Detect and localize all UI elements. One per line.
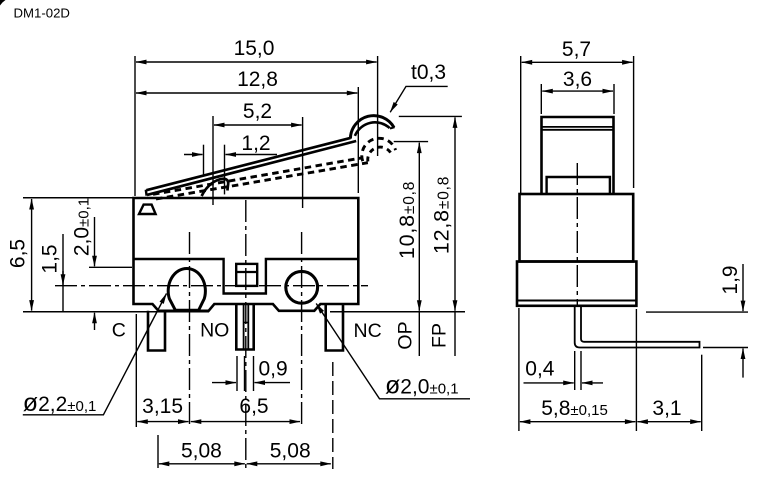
svg-text:1,5: 1,5 [39, 244, 62, 273]
terminal NO [236, 304, 253, 350]
dim 1,5: line [62, 234, 64, 311]
dim 3,1 extension right [701, 355, 703, 431]
svg-text:3,1: 3,1 [652, 397, 681, 420]
dim 5,2 line [214, 124, 302, 126]
svg-text:5,08: 5,08 [181, 440, 222, 463]
dim 5,08 right line [247, 463, 331, 465]
centerline horizontal through holes [55, 285, 368, 287]
lever pressed position bottom dashed [156, 163, 368, 199]
dim 0,9 arrow right [255, 382, 291, 384]
dim 2,0 extension line [89, 266, 132, 268]
pressed hook dashed inner [368, 147, 391, 161]
dim 5,8 extension left [518, 308, 520, 431]
svg-text:OP: OP [395, 321, 417, 349]
svg-text:FP: FP [429, 323, 451, 348]
dim 0,9 extension right [253, 356, 255, 391]
leader diameter 2,0 line [316, 304, 470, 399]
right hole (NC contact) [286, 271, 318, 303]
dim 3,6 line [542, 90, 613, 92]
dim 5,7 extension right [633, 56, 635, 188]
dim 0,4 extension left [574, 351, 576, 390]
end view lever lines on button [542, 127, 614, 130]
dim 5,7 extension left [520, 56, 522, 193]
centerline NC terminal lower [332, 362, 334, 469]
centerline right hole vertical [301, 232, 303, 428]
body top extension line left [23, 197, 133, 199]
dim 3,6 extension right [613, 84, 615, 114]
terminal NO inner tick [244, 322, 249, 324]
leader diameter 2,2 line [23, 294, 167, 415]
svg-text:12,8: 12,8 [237, 68, 278, 91]
svg-text:3,15: 3,15 [142, 395, 183, 418]
dim 3,1 line [637, 421, 700, 423]
dim 0,9 arrow left [212, 382, 236, 384]
dim 10,8 top reference line [394, 141, 428, 143]
seating plane line right [330, 311, 465, 313]
dim 5,8 line [520, 421, 636, 423]
dim 12,8v line tail [454, 312, 456, 356]
svg-text:6,5: 6,5 [7, 239, 30, 268]
dim 1,2 arrow left [184, 154, 203, 156]
dim 0,4 arrow right [582, 382, 603, 384]
dim 6,5 bottom line [191, 421, 300, 423]
end view centerline [576, 163, 578, 307]
svg-text:3,6: 3,6 [563, 68, 592, 91]
dim 15,0 line [136, 61, 377, 63]
dim 12,8 line [136, 92, 357, 94]
dim 0,9 extension left [236, 356, 238, 391]
dim 5,08 left line [159, 463, 245, 465]
svg-text:0,9: 0,9 [259, 358, 288, 381]
page corner logo arc [0, 0, 6, 6]
centerline NO vertical [245, 200, 247, 468]
end view L terminal [575, 306, 700, 348]
dim 12,8v line [454, 117, 456, 310]
dim 3,6 extension left [540, 84, 542, 114]
dim 0,4 arrow left [524, 382, 574, 384]
dim 10,8 line [418, 143, 420, 311]
dim 1,9 lower reference line [703, 347, 748, 349]
dim 3,15 extension left [135, 314, 137, 427]
svg-text:DM1-02D: DM1-02D [14, 6, 70, 21]
dim 1,2 arrow right [226, 154, 278, 156]
end view lower body inner line [517, 300, 636, 302]
svg-text:6,5: 6,5 [239, 395, 268, 418]
dim 5,7 line [522, 61, 633, 63]
dim 5,2 extension left [212, 116, 214, 205]
seating plane line left [23, 311, 209, 313]
svg-text:1,9: 1,9 [719, 265, 742, 294]
centerline left hole vertical [189, 232, 191, 427]
dim 1,9 arrow lower [742, 349, 744, 378]
dim 3,15 line [137, 421, 188, 423]
end view button block [542, 117, 614, 194]
dim 5,8 extension right [635, 309, 637, 431]
left hole (C pivot) [168, 268, 205, 310]
end view upper body [520, 194, 634, 262]
lever hook end cap [390, 127, 395, 128]
dim 10,8 line tail [418, 312, 420, 356]
dim 15,0 extension left [134, 56, 136, 196]
end view button recess [547, 177, 610, 194]
dim 0,4 extension right [580, 351, 582, 390]
terminal NC [326, 304, 343, 351]
dim 0,9 extension mid [244, 356, 246, 391]
leader t0,3 line [390, 86, 448, 112]
svg-text:5,7: 5,7 [562, 38, 591, 61]
dim 12,8v top reference line [399, 115, 462, 117]
lever arm top line [146, 138, 350, 190]
dim 12,8 extension right [357, 87, 359, 193]
dim 1,2 extension left [203, 145, 205, 176]
dim 2,0 arrow lower [94, 313, 96, 330]
terminal NO inner slot [244, 305, 249, 349]
svg-text:5,2: 5,2 [243, 100, 272, 123]
svg-text:15,0: 15,0 [234, 37, 275, 60]
terminal C [148, 311, 165, 351]
dim 1,9 arrow upper [742, 264, 744, 311]
dim 1,2 extension right [224, 145, 226, 195]
lever left end cap [145, 190, 148, 196]
lever hook inner edge [355, 122, 390, 136]
svg-text:NO: NO [200, 320, 229, 342]
svg-text:t0,3: t0,3 [411, 61, 446, 84]
contact block [236, 264, 257, 286]
centerline C terminal lower [157, 435, 159, 468]
lever arm bottom line [147, 141, 356, 195]
end view lower body [517, 262, 636, 306]
pressed hook dashed [362, 138, 396, 161]
svg-text:NC: NC [354, 320, 382, 342]
dim 5,2 extension right [302, 117, 304, 208]
dim 1,5 arrow [62, 271, 64, 285]
switch body outline (side view) [134, 198, 359, 311]
svg-text:5,08: 5,08 [270, 440, 311, 463]
dim 15,0 extension right [377, 56, 379, 156]
lever pressed position top dashed [153, 158, 363, 195]
lever latch trapezoid [139, 205, 156, 214]
svg-text:0,4: 0,4 [525, 358, 555, 381]
lever hook [350, 116, 394, 139]
svg-text:C: C [112, 320, 126, 342]
dim 1,9 upper reference line [646, 311, 748, 313]
body step line left [134, 259, 359, 294]
contact block inner line 1 [236, 271, 257, 273]
lever hinge knuckle arc [202, 179, 229, 196]
dim 6,5 left: line [31, 199, 33, 311]
dim 2,0 arrow upper [94, 217, 96, 266]
svg-text:1,2: 1,2 [241, 132, 270, 155]
